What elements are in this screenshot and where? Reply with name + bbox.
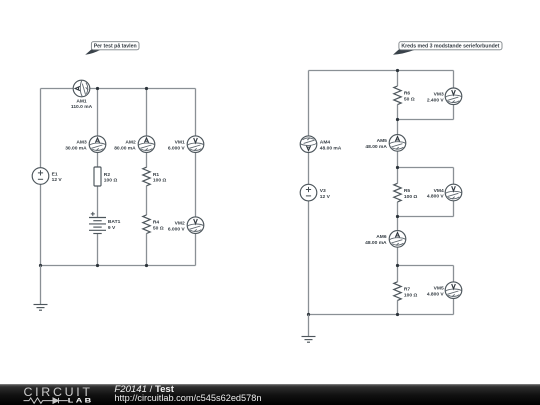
ammeter AM3 [89, 136, 106, 153]
node junction AM5 / R5 / VM4 [396, 166, 399, 169]
svg-text:4.800 V: 4.800 V [427, 291, 445, 297]
voltage source E1 [32, 168, 49, 185]
ground circuit2 [302, 315, 316, 343]
svg-text:R5: R5 [404, 188, 411, 194]
node junction top rail / AM2 branch [145, 87, 148, 90]
svg-text:AM5: AM5 [377, 138, 388, 144]
wire VM5 top link [398, 265, 454, 267]
wire node through AM6 [397, 217, 399, 266]
wire VM4 top link [398, 167, 454, 169]
voltage source V3 [300, 184, 317, 201]
svg-text:Per test på tavlen: Per test på tavlen [94, 43, 137, 50]
wire left column E1 branch [40, 89, 42, 266]
svg-text:9 V: 9 V [108, 225, 116, 231]
svg-text:R6: R6 [404, 91, 411, 97]
ammeter AM4 [300, 136, 317, 153]
svg-text:80.00 mA: 80.00 mA [114, 145, 136, 151]
voltmeter VM4 [445, 184, 462, 201]
svg-text:100 Ω: 100 Ω [404, 194, 418, 200]
resistor R1 [143, 167, 150, 186]
svg-text:12 V: 12 V [320, 194, 331, 200]
annotation callout "Per test på tavlen" [85, 42, 139, 55]
svg-text:6.000 V: 6.000 V [168, 226, 186, 232]
wire R7 to bottom rail [397, 300, 399, 314]
svg-text:BAT1: BAT1 [108, 219, 121, 225]
svg-text:AM3: AM3 [76, 140, 87, 146]
resistor R2 [94, 167, 101, 186]
wire VM4 branch [453, 168, 455, 217]
ammeter AM5 [389, 135, 406, 152]
svg-text:100 Ω: 100 Ω [153, 178, 167, 184]
wire AM2 branch upper [146, 89, 148, 168]
svg-text:50 Ω: 50 Ω [153, 225, 164, 231]
voltmeter VM5 [445, 282, 462, 299]
battery BAT1 [89, 212, 106, 234]
wire bottom rail circuit2 [309, 314, 454, 316]
svg-text:110.0 mA: 110.0 mA [71, 104, 93, 110]
CircuitLab logo resistor-diode squiggle [24, 398, 68, 403]
svg-text:VM2: VM2 [175, 221, 185, 227]
svg-text:6.000 V: 6.000 V [168, 145, 186, 151]
svg-text:AM2: AM2 [125, 140, 136, 146]
wire node to R5 [397, 168, 399, 184]
footer bar [0, 384, 540, 405]
wire R6 to AM5 to node [397, 105, 399, 168]
svg-text:48.00 mA: 48.00 mA [320, 145, 342, 151]
wire AM3/R2 branch upper [97, 89, 99, 218]
wire top rail circuit2 [309, 70, 454, 72]
svg-text:VM5: VM5 [434, 286, 444, 292]
wire VM3 bottom link [398, 119, 454, 121]
svg-text:E1: E1 [52, 171, 58, 177]
wire between R1 and R4 [146, 186, 148, 215]
node junction R6 bottom / VM3 [396, 118, 399, 121]
ammeter AM6 [389, 231, 406, 248]
svg-text:48.00 mA: 48.00 mA [365, 144, 387, 150]
wire VM4 bottom link [398, 216, 454, 218]
ground circuit1 [34, 266, 48, 311]
node junction bottom rail / ground2 [307, 313, 310, 316]
ammeter AM2 [138, 136, 155, 153]
wire left column AM4/V3 branch [308, 71, 310, 315]
wire R5 to node [397, 202, 399, 217]
svg-text:R4: R4 [153, 220, 160, 226]
svg-text:AM1: AM1 [76, 99, 87, 105]
node junction AM6 / R7 / VM5 [396, 264, 399, 267]
ammeter AM1 [73, 80, 90, 97]
svg-text:R7: R7 [404, 286, 411, 292]
wire top rail circuit1 [41, 88, 196, 90]
node junction bottom rail / BAT1 branch [96, 264, 99, 267]
voltmeter VM2 [187, 217, 204, 234]
resistor R6 [394, 86, 401, 105]
svg-text:R1: R1 [153, 172, 160, 178]
wire VM1/VM2 branch [195, 89, 197, 266]
resistor R5 [394, 183, 401, 202]
svg-text:VM1: VM1 [175, 140, 185, 146]
node junction bottom rail / R7 [396, 313, 399, 316]
node junction bottom rail / R4 branch [145, 264, 148, 267]
wire VM5 branch [453, 266, 455, 315]
svg-text:4.800 V: 4.800 V [427, 194, 445, 200]
wire VM3 branch [453, 71, 455, 120]
svg-text:Kreds med 3 modstande seriefor: Kreds med 3 modstande serieforbundet [401, 44, 499, 50]
svg-text:VM3: VM3 [434, 92, 444, 98]
wire R4 to bottom rail [146, 234, 148, 266]
svg-text:30.00 mA: 30.00 mA [65, 145, 87, 151]
svg-text:48.00 mA: 48.00 mA [365, 240, 387, 246]
resistor R7 [394, 282, 401, 301]
annotation callout "Kreds med 3 modstande serieforbundet" [393, 42, 502, 55]
svg-text:R2: R2 [104, 172, 111, 178]
voltmeter VM3 [445, 88, 462, 105]
wire bottom rail circuit1 [41, 265, 196, 267]
svg-text:LAB: LAB [68, 397, 94, 404]
node junction R5 / AM6 / VM4 [396, 215, 399, 218]
wire top rail to R6 [397, 71, 399, 87]
svg-text:2.400 V: 2.400 V [427, 98, 445, 104]
svg-text:50 Ω: 50 Ω [404, 97, 415, 103]
wire node to R7 [397, 266, 399, 282]
svg-text:VM4: VM4 [434, 188, 444, 194]
voltmeter VM1 [187, 136, 204, 153]
node junction bottom rail / ground [39, 264, 42, 267]
node junction top rail / AM3 branch [96, 87, 99, 90]
svg-text:AM4: AM4 [320, 140, 331, 146]
svg-text:100 Ω: 100 Ω [104, 178, 118, 184]
svg-text:http://circuitlab.com/c545s62e: http://circuitlab.com/c545s62ed578n [114, 393, 261, 403]
svg-text:100 Ω: 100 Ω [404, 292, 418, 298]
wire BAT1 to bottom rail [97, 234, 99, 266]
svg-text:12 V: 12 V [52, 177, 63, 183]
resistor R4 [143, 215, 150, 234]
node junction top rail / R6 [396, 69, 399, 72]
svg-text:V3: V3 [320, 188, 326, 194]
svg-text:AM6: AM6 [376, 234, 387, 240]
